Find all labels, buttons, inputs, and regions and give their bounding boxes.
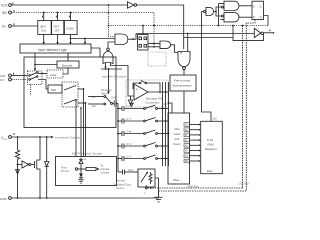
mosfet xyxy=(35,137,41,198)
svg-text:IO: IO xyxy=(185,134,188,137)
node gnd2 xyxy=(39,197,41,199)
mid box xyxy=(48,85,62,93)
node serial-sd xyxy=(153,25,155,27)
svg-text:bCsM: bCsM xyxy=(67,27,75,31)
wire VDD rail xyxy=(12,136,52,138)
wire interface to switch xyxy=(34,53,57,71)
osc common xyxy=(111,103,113,105)
select blade 1 xyxy=(64,86,76,91)
svg-text:(Max): (Max) xyxy=(101,92,108,96)
svg-text:S: S xyxy=(253,4,255,8)
svg-text:From: From xyxy=(61,166,67,170)
wire y69 xyxy=(101,68,122,70)
wire fbA vert xyxy=(218,4,220,26)
wire rail1 y33.5 xyxy=(136,33,254,35)
node rail1-nanddn xyxy=(187,33,189,35)
svg-text:Latch: Latch xyxy=(174,132,181,136)
node sel2 xyxy=(85,102,87,104)
svg-text:Input Div Processor: Input Div Processor xyxy=(102,75,126,79)
pin DIN xyxy=(2,23,14,28)
osc ext contact xyxy=(88,103,106,108)
svg-text:GND: GND xyxy=(0,197,8,201)
osc bus x118 xyxy=(117,104,119,173)
pin GND xyxy=(0,197,11,201)
wires staircase xyxy=(63,68,68,74)
clock generator box xyxy=(170,75,196,91)
wire into tallbox top xyxy=(164,102,173,113)
wire serial line y25.5 xyxy=(109,25,269,27)
svg-text:SD: SD xyxy=(2,11,7,15)
svg-text:Mux: Mux xyxy=(175,127,181,131)
svg-text:R: R xyxy=(253,15,255,19)
esd box xyxy=(56,152,117,186)
svg-text:DN: DN xyxy=(185,160,189,163)
wire CLI xyxy=(12,79,28,81)
svg-text:CLK: CLK xyxy=(1,4,8,8)
wire io to esd 1 xyxy=(75,99,77,156)
svg-text:ESD Protection Circuitry: ESD Protection Circuitry xyxy=(72,152,103,156)
crystal box xyxy=(138,169,155,187)
svg-text:Source: Source xyxy=(116,186,125,190)
wire G1 mid vertical xyxy=(202,12,212,122)
xtal bottom contact xyxy=(144,185,148,196)
wire serial to interface xyxy=(84,38,86,45)
wire feedback left xyxy=(133,83,139,89)
wire CLK cont xyxy=(137,5,184,49)
wire CLO xyxy=(12,75,28,77)
wire NOR out to AND1 xyxy=(108,42,115,48)
diode to gnd on divider xyxy=(16,170,20,175)
node gnd1 xyxy=(17,197,19,199)
wire bottom bus 1 xyxy=(147,187,242,189)
svg-text:SCb: SCb xyxy=(41,29,47,33)
register box B1 xyxy=(38,13,51,35)
svg-text:16b/7: 16b/7 xyxy=(40,25,47,29)
osc cap xyxy=(111,96,118,107)
osc switch blade xyxy=(106,97,111,103)
ground xtal xyxy=(155,197,163,202)
wire serial out y38.5 xyxy=(71,38,116,40)
svg-text:+: + xyxy=(135,87,137,91)
wire pair2 down xyxy=(242,26,244,189)
wire NANDB out xyxy=(239,16,252,18)
flipflop box xyxy=(138,26,149,51)
marker nabla xyxy=(130,103,133,106)
NAND down gate xyxy=(178,34,190,70)
wire GND rail xyxy=(12,197,159,199)
buffer inv xyxy=(254,28,274,37)
control arrow xyxy=(107,68,109,94)
wire FF q to AND2 xyxy=(148,43,160,45)
wire G1 out split xyxy=(214,7,222,12)
svg-text:Freq: Freq xyxy=(50,73,57,77)
svg-text:V+: V+ xyxy=(84,158,88,161)
wire feedback xyxy=(147,83,161,92)
node gnd3 xyxy=(46,197,48,199)
cap row 2 xyxy=(117,117,168,123)
node ff1 xyxy=(153,43,155,45)
ref arrow xyxy=(129,96,133,105)
stub below switch box xyxy=(30,85,32,96)
svg-text:S4: S4 xyxy=(164,102,168,106)
svg-text:3%T: 3%T xyxy=(54,25,60,29)
svg-text:Count: Count xyxy=(173,142,181,146)
node rail1-g1vert xyxy=(201,33,203,35)
node inv in xyxy=(17,164,19,166)
svg-text:Bias: Bias xyxy=(174,178,180,182)
wire CLK drop to AND1 xyxy=(109,5,116,37)
cap row 5 xyxy=(117,155,168,161)
wire sel1 out xyxy=(78,88,84,90)
feedback switch xyxy=(139,80,146,83)
clock select switch box xyxy=(28,71,43,85)
svg-text:LSB First: LSB First xyxy=(238,182,249,186)
node ff2 xyxy=(153,46,155,48)
decode box xyxy=(57,53,79,68)
cap row 3 xyxy=(117,130,169,136)
wire rail2 y37.5 xyxy=(184,34,264,40)
wire nand out xyxy=(183,70,185,75)
node SD-b2 xyxy=(57,12,59,14)
node vdd3 xyxy=(46,136,48,138)
wire DIN xyxy=(12,25,38,27)
wire B3 out xyxy=(69,35,71,45)
svg-text:clock generator: clock generator xyxy=(173,84,192,88)
svg-text:18T: 18T xyxy=(55,29,60,33)
wire bottom bus 2 xyxy=(159,190,247,192)
interface logic box xyxy=(20,44,91,53)
cap row 1 xyxy=(117,105,168,111)
svg-text:Ext: Ext xyxy=(92,104,96,108)
node SD-b3 xyxy=(70,12,72,14)
svg-text:Registers: Registers xyxy=(205,147,217,151)
NOR up gate xyxy=(103,48,122,69)
wire io to esd 1 xyxy=(83,89,85,157)
svg-text:C/I: C/I xyxy=(0,78,4,82)
select dashed box xyxy=(62,82,78,107)
svg-text:Bandgap: Bandgap xyxy=(101,88,112,92)
node G1 split xyxy=(215,11,217,13)
node opamp out xyxy=(159,91,161,93)
svg-text:RAM: RAM xyxy=(208,143,215,147)
node gndline xyxy=(150,187,152,189)
wire SD xyxy=(12,13,155,48)
svg-text:DD: DD xyxy=(4,139,8,141)
AND2 gate xyxy=(160,41,171,49)
svg-text:Internal: Internal xyxy=(101,167,110,171)
svg-text:Q: Q xyxy=(260,4,262,8)
svg-text:to Internal Circuitry: to Internal Circuitry xyxy=(55,136,81,140)
wire CLK xyxy=(12,4,128,6)
latch box xyxy=(252,1,264,19)
ram box xyxy=(201,117,223,174)
register box B2 xyxy=(52,13,64,35)
svg-text:MSB First: MSB First xyxy=(188,184,200,188)
svg-text:T≈: T≈ xyxy=(144,193,147,196)
wire B2 out xyxy=(56,35,58,45)
tall box out pins xyxy=(184,123,201,164)
svg-text:DI: DI xyxy=(2,25,5,29)
svg-text:To: To xyxy=(101,164,104,168)
wire gen out xyxy=(183,91,185,113)
svg-text:I/O: I/O xyxy=(185,150,188,153)
wire sw to freq xyxy=(38,73,47,75)
node vdd1 xyxy=(17,136,19,138)
grey dashed rect B xyxy=(126,80,168,107)
gate G1 bubble-and xyxy=(202,7,214,15)
pin CLK xyxy=(1,3,13,8)
inverter por xyxy=(18,161,35,168)
wire B1 out xyxy=(43,35,45,45)
node vdd2 xyxy=(39,136,41,138)
svg-text:Mid: Mid xyxy=(51,88,56,92)
pin SD xyxy=(2,10,14,15)
wire io to esd 2 xyxy=(80,107,82,156)
wire FF qb to AND2 xyxy=(148,46,160,48)
wire x233 link xyxy=(232,26,234,38)
node serial-ff xyxy=(142,25,144,27)
osc int contact xyxy=(88,95,106,99)
AND1 gate xyxy=(115,34,128,45)
resistor por xyxy=(15,137,19,198)
node SD-x108 xyxy=(108,12,110,14)
svg-text:Remote: Remote xyxy=(116,179,126,183)
svg-text:Data: Data xyxy=(207,169,213,173)
node serial-pair xyxy=(242,25,244,27)
wire AND2 out xyxy=(171,45,179,53)
NAND A xyxy=(219,1,239,10)
wire interface right xyxy=(91,48,100,57)
wire NANDA out xyxy=(239,5,252,7)
inverter on CLK xyxy=(128,2,137,8)
node opamp bus xyxy=(165,91,167,93)
svg-text:I/O: I/O xyxy=(185,124,188,127)
freq box xyxy=(47,70,63,78)
register box B3 xyxy=(64,13,77,35)
crystal row xyxy=(118,168,138,174)
grey dashed rect A xyxy=(148,52,166,66)
svg-text:Pin I/O: Pin I/O xyxy=(61,169,69,173)
node serial-and1 xyxy=(108,25,110,27)
diode por xyxy=(45,137,49,198)
svg-text:Free-running: Free-running xyxy=(174,79,190,83)
node y69 xyxy=(105,68,107,70)
cap row 4 xyxy=(117,142,168,148)
svg-text:Int: Int xyxy=(92,95,95,99)
svg-text:Comparator: Comparator xyxy=(145,101,160,105)
big control block xyxy=(24,57,116,128)
mux counter tall box xyxy=(168,113,190,184)
esd contents xyxy=(61,158,110,184)
svg-text:Decode: Decode xyxy=(62,63,73,67)
wire xtal right to gnd xyxy=(155,178,159,197)
node AND1 out xyxy=(132,38,134,40)
svg-text:Input Interface Logic: Input Interface Logic xyxy=(38,48,67,52)
svg-text:Q: Q xyxy=(260,15,262,19)
svg-text:C≈0: C≈0 xyxy=(111,96,116,100)
wire io to esd 2 xyxy=(85,103,87,157)
svg-text:and: and xyxy=(175,137,180,141)
node serial-x233 xyxy=(232,25,234,27)
node SD-b1 xyxy=(43,12,45,14)
pin VDD xyxy=(1,133,14,141)
NAND B xyxy=(220,13,239,22)
wire latch bottom fb xyxy=(246,20,255,192)
node serial-fb1 xyxy=(218,25,220,27)
node serial-g1 xyxy=(201,25,203,27)
node sel1 xyxy=(83,88,85,90)
opamp xyxy=(134,84,148,100)
wire latch right to serial xyxy=(264,16,269,26)
svg-text:Circuits: Circuits xyxy=(101,171,110,175)
wire sw to mid xyxy=(38,80,48,90)
select blade 2 xyxy=(64,100,76,105)
wire to opamp minus xyxy=(122,66,134,97)
svg-text:8 1/2: 8 1/2 xyxy=(207,138,214,142)
bus verts xyxy=(162,82,164,166)
wire sel2 out xyxy=(78,102,86,104)
wire AND1 out to rail xyxy=(128,34,136,40)
pin CLO xyxy=(0,73,14,78)
svg-text:Ctrl: Ctrl xyxy=(213,117,217,121)
svg-text:NC: NC xyxy=(185,129,189,132)
wire opamp out xyxy=(148,91,169,93)
pin CLI xyxy=(0,78,11,82)
